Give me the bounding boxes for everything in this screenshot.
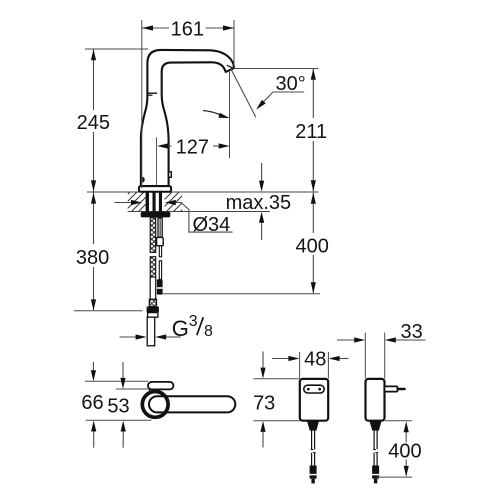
- sensor cable upper: [158, 218, 162, 238]
- threaded shank: [146, 192, 149, 212]
- G3/8 pipe: [147, 317, 155, 346]
- dimension 400 bottom right: [385, 420, 412, 422]
- svg-text:Ø34: Ø34: [193, 214, 231, 236]
- dimension 73: [254, 378, 300, 380]
- power supply front box: [300, 379, 328, 421]
- svg-text:161: 161: [171, 19, 204, 41]
- faucet body and spout outline: [141, 50, 234, 186]
- svg-text:8: 8: [204, 323, 213, 340]
- flow arrow: [203, 111, 221, 116]
- side cable: [373, 431, 375, 450]
- svg-text:211: 211: [295, 121, 327, 143]
- hose coupling: [149, 299, 156, 306]
- 30 degree leader: [258, 92, 304, 108]
- dimension 33: [364, 333, 366, 379]
- svg-text:245: 245: [77, 112, 110, 134]
- dimension 127: [168, 145, 172, 147]
- base plate: [139, 186, 171, 192]
- sensor cable wire: [159, 246, 161, 257]
- svg-text:73: 73: [253, 393, 275, 415]
- spout tip fold line: [227, 65, 233, 68]
- socket pins: [307, 388, 310, 391]
- svg-text:3: 3: [189, 313, 198, 330]
- hose plain tube: [150, 277, 156, 299]
- handle lever arm: [149, 396, 235, 412]
- svg-text:30°: 30°: [275, 73, 305, 95]
- G3/8 fitting body: [148, 313, 158, 318]
- dimension 245: [85, 48, 148, 50]
- svg-text:380: 380: [76, 247, 109, 269]
- spout joint tick: [148, 92, 157, 94]
- svg-text:33: 33: [400, 321, 422, 343]
- dimension 400 right: [312, 193, 314, 233]
- body centerline: [156, 137, 158, 192]
- locknut: [141, 212, 171, 218]
- handle top bar: [148, 382, 173, 390]
- deck hatching right: [165, 192, 183, 211]
- braided hose upper: [150, 218, 156, 253]
- deck hatching left: [128, 192, 146, 211]
- dimension 161: [142, 27, 169, 29]
- dimension 48: [299, 352, 301, 379]
- socket face: [304, 385, 324, 393]
- outlet vertical line: [229, 72, 231, 158]
- G3/8 fitting flange: [147, 307, 159, 313]
- front cable: [311, 431, 313, 450]
- dimension max.35: [261, 163, 263, 181]
- side cable plug: [372, 465, 379, 478]
- svg-text:400: 400: [388, 441, 421, 463]
- dimension G 3/8: [120, 336, 136, 338]
- dimension 380: [93, 193, 95, 244]
- front strain relief: [307, 421, 319, 431]
- 30 degree line: [231, 69, 256, 118]
- svg-text:400: 400: [296, 236, 329, 258]
- dimension 211: [234, 68, 319, 70]
- side strain relief: [370, 421, 382, 431]
- dimension 53: [116, 388, 148, 390]
- svg-text:53: 53: [107, 396, 129, 418]
- deck top line: [87, 191, 318, 193]
- sensor window: [142, 177, 144, 183]
- handle base circle: [142, 392, 168, 418]
- sensor cable plug: [157, 279, 163, 294]
- svg-text:127: 127: [176, 136, 209, 158]
- handle neck ticks: [148, 389, 150, 393]
- dimension 66: [85, 380, 148, 382]
- braided hose lower: [150, 257, 156, 277]
- deck bottom line: [128, 211, 270, 213]
- sensor cable connector box: [157, 237, 164, 245]
- svg-text:48: 48: [304, 348, 326, 370]
- plug pin: [398, 388, 405, 390]
- svg-text:G: G: [172, 316, 189, 341]
- side detail box: [169, 172, 172, 178]
- svg-text:66: 66: [81, 392, 103, 414]
- power supply side box: [366, 379, 385, 421]
- svg-text:max.35: max.35: [226, 192, 292, 214]
- dimension diameter 34: [114, 202, 131, 204]
- front cable plug: [310, 465, 317, 478]
- plug prong base: [385, 386, 398, 391]
